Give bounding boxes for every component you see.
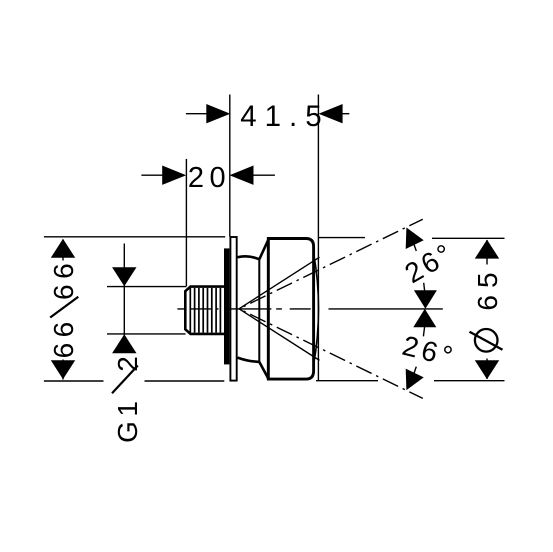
angular dimension 26 upper — [400, 228, 460, 309]
svg-text:41.5: 41.5 — [240, 100, 329, 133]
spray dash-dot line upper 26deg — [239, 219, 423, 309]
svg-text:66: 66 — [48, 316, 79, 358]
dimension dia 65 (right) — [316, 238, 505, 381]
extension line head front (41.5 right) — [317, 95, 319, 381]
seal bar — [224, 248, 229, 364]
svg-text:20: 20 — [188, 162, 231, 194]
svg-text:65: 65 — [472, 265, 503, 310]
neck — [238, 256, 260, 259]
dimension G1/2 — [104, 244, 187, 447]
dimension 66/66 (left) — [44, 237, 225, 381]
dimension 20 — [141, 162, 275, 194]
svg-text:2: 2 — [112, 356, 143, 372]
extension line wall/flange (shared 20 right / 41.5 left) — [229, 95, 231, 237]
svg-text:G1: G1 — [112, 397, 143, 443]
extension line thread end (20 left) — [185, 159, 187, 286]
cone — [258, 259, 260, 362]
dimension 41.5 — [186, 100, 349, 133]
head — [268, 239, 313, 380]
body: thread G1/2 — [185, 287, 225, 334]
center line — [177, 308, 442, 310]
spray cone solid line upper — [239, 257, 320, 309]
svg-text:66: 66 — [48, 258, 79, 300]
face arc — [313, 252, 318, 367]
wall flange — [230, 237, 236, 381]
spray dash-dot line lower 26deg — [239, 309, 423, 399]
angular dimension 26 lower — [399, 309, 459, 390]
spray cone solid line lower — [239, 309, 320, 361]
